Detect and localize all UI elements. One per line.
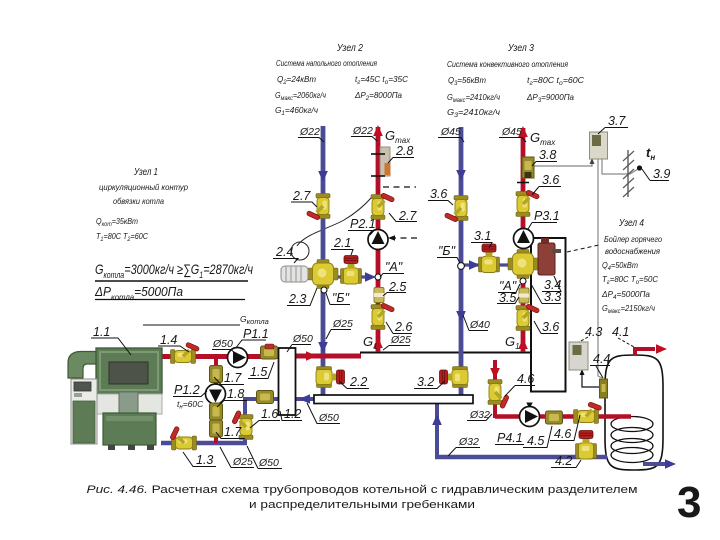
blue cold water line bottom xyxy=(435,455,607,460)
cabinet button xyxy=(74,393,82,397)
red supply pipe node 2 xyxy=(376,127,381,352)
svg-text:Ø22: Ø22 xyxy=(352,125,373,137)
sensor tick node3 pipe xyxy=(517,182,529,184)
label 2.2 xyxy=(339,381,369,389)
pump P2.1 xyxy=(368,230,388,250)
svg-text:Ø50: Ø50 xyxy=(258,457,279,469)
svg-text:3.6: 3.6 xyxy=(430,187,447,201)
svg-text:Узел 4: Узел 4 xyxy=(618,217,644,229)
red pipe separator to supply manifold xyxy=(295,354,361,359)
label 1.1 xyxy=(91,338,131,355)
svg-text:Ø40: Ø40 xyxy=(469,319,490,331)
node B circle node2 xyxy=(321,287,327,293)
label d25 blue node2 xyxy=(326,330,351,340)
blue return pipe node 3 xyxy=(459,127,464,395)
svg-text:3.9: 3.9 xyxy=(653,167,670,181)
label 4.2 xyxy=(551,460,581,468)
valve 2.6 xyxy=(371,299,396,329)
blue arrow into separator xyxy=(299,394,310,404)
sensor tick upper node2 xyxy=(371,153,385,155)
label A node3 xyxy=(498,284,520,293)
svg-text:и распределительными гребенкам: и распределительными гребенками xyxy=(249,499,475,511)
DHW tank body xyxy=(605,355,663,470)
label 1.7 lower xyxy=(216,432,245,439)
label 3.2 xyxy=(414,381,445,389)
label d40 xyxy=(463,315,488,331)
blue pipe separator left to riser xyxy=(243,397,279,401)
svg-text:2.4: 2.4 xyxy=(275,245,293,259)
svg-text:Система напольного отопления: Система напольного отопления xyxy=(276,58,377,68)
label 1.7 upper xyxy=(214,377,244,385)
label 1.4 xyxy=(158,346,189,352)
thermostatic capillary curve node 2 xyxy=(297,197,372,246)
label d32 blue xyxy=(448,448,480,457)
controller 4.3 xyxy=(569,342,588,370)
red DHW feed drop xyxy=(493,360,497,418)
red tank outlet arrow xyxy=(656,344,667,354)
wire heatmeter 3.8 to controller 3.7 xyxy=(534,161,592,166)
svg-text:Ø45: Ø45 xyxy=(440,126,461,138)
valve 3.6 on supply xyxy=(516,186,541,216)
node B circle node3 xyxy=(458,263,465,270)
valve 4.6 on drop xyxy=(488,380,513,410)
heat meter 3.8 foot xyxy=(525,172,532,178)
red top arrow Gmax node 2 xyxy=(373,125,383,136)
svg-text:Узел 1: Узел 1 xyxy=(133,166,158,178)
node A circle node2 xyxy=(375,274,381,280)
label 1.3 xyxy=(183,452,216,467)
red G1 arrow node 3 xyxy=(518,338,528,349)
wall hatching xyxy=(623,151,634,197)
label d32 red xyxy=(467,414,492,421)
boiler 1.1 body frame xyxy=(100,352,158,390)
arrow into pump P4.1 xyxy=(526,403,532,410)
boiler 1.1 flue duct xyxy=(68,352,97,379)
svg-text:2.6: 2.6 xyxy=(394,320,412,334)
svg-text:Ø50: Ø50 xyxy=(212,338,233,350)
sensor loop circle node 2 xyxy=(291,242,309,260)
dP formula underline xyxy=(95,299,245,301)
blue tank outlet arrow xyxy=(665,459,676,469)
label d50 top xyxy=(212,350,236,355)
svg-text:3.7: 3.7 xyxy=(608,114,626,128)
controller 3.7 screen xyxy=(592,135,601,146)
label 2.6 xyxy=(386,322,412,334)
wire arrow at 4.3 bottom xyxy=(580,369,585,375)
svg-text:2.1: 2.1 xyxy=(333,236,351,250)
valve 4.2 xyxy=(576,431,597,460)
label d22 left xyxy=(298,138,324,143)
label 1.8 xyxy=(217,401,247,408)
label 3.5 xyxy=(497,297,519,304)
red tank top outlet pipe xyxy=(635,349,655,356)
valve 1.6 on riser xyxy=(228,409,253,439)
tank coil loop 4 xyxy=(611,448,653,463)
check valve 1.8 xyxy=(210,403,223,420)
controller 4.3 screen xyxy=(573,345,582,355)
label 3.7 xyxy=(598,128,628,135)
svg-text:обвязки котла: обвязки котла xyxy=(113,196,164,206)
blue riser boiler return xyxy=(243,397,247,445)
leader G kotla xyxy=(143,324,240,326)
svg-text:3: 3 xyxy=(677,478,701,527)
label B node2 xyxy=(326,293,350,305)
svg-text:циркуляционный контур: циркуляционный контур xyxy=(99,182,188,192)
actuator 3.4 arm xyxy=(552,249,561,253)
strainer 4.5 xyxy=(546,411,563,424)
label d50 left node2 xyxy=(287,345,311,353)
red arrow after separator xyxy=(306,351,317,361)
svg-text:Бойлер горячего: Бойлер горячего xyxy=(604,234,662,244)
check valve 1.6 xyxy=(257,391,274,404)
red DHW bottom line xyxy=(495,414,631,419)
red boiler supply line xyxy=(161,354,279,359)
label 1.5 xyxy=(248,362,274,379)
label 4.4 xyxy=(590,366,610,379)
dashed leader 4.1 xyxy=(618,338,634,347)
svg-text:Р1.1: Р1.1 xyxy=(243,327,269,341)
label 2.8 xyxy=(388,158,414,164)
wire arrow into 3.7 xyxy=(590,158,595,164)
blue link arrow node 2 xyxy=(365,272,376,282)
wire 4.3 to 4.4 xyxy=(582,374,599,387)
valve 1.7 upper xyxy=(210,366,223,383)
label 1.2 xyxy=(280,411,302,421)
svg-text:"Б": "Б" xyxy=(438,244,456,258)
blue pipe separator to return manifold xyxy=(295,397,314,401)
blue mixing link node 2 xyxy=(330,275,370,278)
blue boiler return bottom line xyxy=(161,441,247,446)
svg-text:1.3: 1.3 xyxy=(196,453,213,467)
label A node2 xyxy=(380,274,404,278)
label P4.1 xyxy=(495,444,524,446)
svg-text:1.1: 1.1 xyxy=(93,325,110,339)
dashed leader uzel4 to frame xyxy=(567,245,599,252)
svg-text:2.8: 2.8 xyxy=(395,144,413,158)
svg-text:Узел 2: Узел 2 xyxy=(336,42,363,54)
pump P4.1 xyxy=(520,407,540,427)
svg-text:3.1: 3.1 xyxy=(474,229,491,243)
label 1.6 xyxy=(250,421,280,429)
svg-text:3.5: 3.5 xyxy=(499,291,516,305)
flow arrow down node3 blue top xyxy=(456,170,466,181)
three way valve 3.3 xyxy=(508,250,538,279)
svg-text:4.5: 4.5 xyxy=(527,434,544,448)
valve 1.7 lower xyxy=(210,420,223,437)
flowmeter 2.5 xyxy=(374,288,384,303)
tank coil loop 1 xyxy=(611,417,653,432)
svg-text:Узел 3: Узел 3 xyxy=(507,42,534,54)
blue mixing link node 3 xyxy=(461,263,512,266)
valve 2.2 xyxy=(316,367,345,388)
label 2.3 xyxy=(287,288,317,306)
heat meter 2.8 xyxy=(380,147,390,176)
node 4 frame box xyxy=(531,238,566,392)
svg-text:1.7: 1.7 xyxy=(224,371,242,385)
actuator 2.4 ridges xyxy=(286,266,301,282)
valve 4.4 xyxy=(600,379,608,398)
label d25 bottom xyxy=(220,447,254,468)
label d50 separator xyxy=(307,403,340,424)
svg-text:Ø25: Ø25 xyxy=(232,456,253,468)
red bypass pipe xyxy=(214,357,218,443)
dashed control line node2 upper xyxy=(383,186,416,188)
svg-text:3.2: 3.2 xyxy=(417,375,434,389)
svg-text:Ø50: Ø50 xyxy=(292,333,313,345)
flow arrow down node2 blue lower xyxy=(318,342,328,353)
svg-text:Р1.2: Р1.2 xyxy=(174,383,200,397)
svg-text:4.1: 4.1 xyxy=(612,325,629,339)
heat meter 3.8 inner xyxy=(525,161,532,170)
boiler 1.1 pedestal column xyxy=(119,392,138,416)
check valve 1.5 xyxy=(261,346,278,359)
tank coil loop 3 xyxy=(611,439,653,454)
svg-text:1.8: 1.8 xyxy=(227,387,244,401)
svg-text:4.6: 4.6 xyxy=(517,372,534,386)
svg-text:2.3: 2.3 xyxy=(288,292,306,306)
actuator 3.4 xyxy=(538,243,555,275)
svg-text:Ø32: Ø32 xyxy=(469,409,490,421)
blue tank outlet line xyxy=(643,462,667,466)
svg-text:"А": "А" xyxy=(385,260,403,274)
label 3.3 xyxy=(531,284,561,304)
valve 1.3 xyxy=(166,425,196,450)
svg-text:2.5: 2.5 xyxy=(388,280,406,294)
thermo actuator 2.4 xyxy=(281,266,308,282)
boiler 1.1 base xyxy=(103,413,156,445)
svg-text:4.4: 4.4 xyxy=(593,352,610,366)
label P3.1 xyxy=(528,223,557,230)
blue arrow up DHW return xyxy=(432,414,442,425)
formula underline xyxy=(95,280,248,282)
pump P1.2 xyxy=(206,384,226,404)
outdoor sensor dot xyxy=(637,165,642,170)
return manifold bar xyxy=(314,395,473,404)
label 3.4 xyxy=(542,276,561,292)
boiler 1.1 main body xyxy=(96,348,162,394)
label 2.5 xyxy=(383,293,406,297)
svg-text:Система конвективного отоплени: Система конвективного отопления xyxy=(447,59,568,69)
boiler 1.1 mid band xyxy=(96,394,162,414)
boiler 1.1 foot 2 xyxy=(128,445,135,450)
valve 3.6 lower xyxy=(516,300,541,330)
blue link arrow node 3 xyxy=(469,260,480,270)
svg-text:1.5: 1.5 xyxy=(250,365,267,379)
svg-text:Ø25: Ø25 xyxy=(332,318,353,330)
cabinet green lower panel xyxy=(73,401,95,443)
svg-text:3.3: 3.3 xyxy=(544,290,561,304)
label 2.4 xyxy=(273,259,298,264)
label 3.6 lower xyxy=(534,321,558,334)
label 2.1 xyxy=(331,250,353,256)
label 3.8 xyxy=(532,162,557,167)
svg-text:1.7: 1.7 xyxy=(224,425,242,439)
label 2.7 left xyxy=(291,202,317,207)
valve 4.6 on line xyxy=(574,398,604,423)
svg-text:"Б": "Б" xyxy=(332,291,350,305)
label 3.9 xyxy=(642,169,669,181)
red top arrow Gmax node 3 xyxy=(518,126,528,137)
svg-text:Ø45: Ø45 xyxy=(501,126,522,138)
outdoor wall line xyxy=(627,150,629,197)
label B node3 xyxy=(437,258,460,264)
valve 2.7 on supply xyxy=(371,189,396,219)
three way valve 2.3 xyxy=(308,260,338,289)
hydraulic separator 1.2 xyxy=(279,348,296,415)
svg-text:3.8: 3.8 xyxy=(539,148,556,162)
label d45 right xyxy=(499,138,526,143)
actuator 3.4 top xyxy=(541,238,549,244)
label 3.6 left xyxy=(428,201,453,206)
dashed control line pump P2.1 xyxy=(390,237,417,239)
svg-text:1.2: 1.2 xyxy=(284,407,301,421)
node A circle node3 xyxy=(520,278,526,284)
svg-text:3.6: 3.6 xyxy=(542,320,559,334)
label d45 left xyxy=(438,138,464,143)
svg-text:Ø25: Ø25 xyxy=(390,334,411,346)
label d25 red node2 xyxy=(383,346,410,351)
valve 3.2 xyxy=(440,367,469,388)
svg-text:1.6: 1.6 xyxy=(261,407,278,421)
label P1.2 xyxy=(173,391,207,397)
svg-text:Р3.1: Р3.1 xyxy=(534,209,560,223)
svg-text:2.2: 2.2 xyxy=(349,375,367,389)
red G1 arrow node 2 xyxy=(373,337,383,348)
valve 4.4 inner xyxy=(602,384,606,392)
label P2.1 xyxy=(348,231,374,236)
tank coil loop 2 xyxy=(611,428,653,443)
dashed leader 4.3 xyxy=(579,337,588,342)
boiler 1.1 window xyxy=(109,362,148,384)
svg-text:1.4: 1.4 xyxy=(160,333,177,347)
svg-text:Ø22: Ø22 xyxy=(299,126,320,138)
wire 3.7 down to 4.4 xyxy=(598,159,602,378)
heat meter 2.8 orange part xyxy=(385,163,391,175)
pump P3.1 xyxy=(514,229,534,249)
label 2.7 right xyxy=(389,213,417,222)
svg-text:4.3: 4.3 xyxy=(585,325,602,339)
boiler control cabinet xyxy=(71,379,97,444)
label 4.5 xyxy=(523,426,552,448)
blue return pipe node 2 xyxy=(321,126,326,395)
svg-text:2.7: 2.7 xyxy=(398,209,417,223)
balancing valve 2.1 xyxy=(341,256,362,285)
top manifold line xyxy=(360,352,531,354)
label 4.6 lower xyxy=(550,415,580,441)
heat meter 3.8 xyxy=(522,157,534,178)
svg-text:Ø50: Ø50 xyxy=(318,412,339,424)
balancing valve 3.1 xyxy=(479,244,500,273)
arrow on P2.1 dashed line xyxy=(388,235,395,241)
svg-text:водоснабжения: водоснабжения xyxy=(605,246,660,256)
label 3.1 xyxy=(471,243,492,249)
flow arrow down node3 blue lower xyxy=(456,311,466,322)
check valve 1.5 red cap xyxy=(265,344,274,349)
svg-text:Р4.1: Р4.1 xyxy=(497,431,523,445)
svg-text:4.2: 4.2 xyxy=(555,454,572,468)
label 3.6 right xyxy=(532,187,561,196)
label d22 right xyxy=(351,137,377,142)
blue DHW return stub from manifold xyxy=(435,403,439,459)
label d50 bottom xyxy=(247,446,282,469)
svg-text:Р2.1: Р2.1 xyxy=(350,217,376,231)
red supply pipe node 3 xyxy=(521,128,526,352)
sensor tick lower node2 xyxy=(371,175,385,177)
svg-text:3.6: 3.6 xyxy=(542,173,559,187)
boiler 1.1 foot 3 xyxy=(147,445,154,450)
flow arrow down node2 blue top xyxy=(318,171,328,182)
svg-text:4.6: 4.6 xyxy=(554,427,571,441)
valve 1.4 xyxy=(171,339,201,364)
boiler 1.1 feet xyxy=(108,445,115,450)
red DHW feed arrow xyxy=(490,368,500,379)
svg-text:Рис. 4.46. Расчетная схема тру: Рис. 4.46. Расчетная схема трубопроводов… xyxy=(87,484,638,496)
flowmeter 3.5 xyxy=(519,288,529,303)
boiler 1.1 base top rim xyxy=(106,416,153,421)
wire 3.7 to outdoor sensor xyxy=(602,159,638,174)
pump P1.1 xyxy=(228,348,248,368)
cabinet display xyxy=(74,382,91,391)
valve 2.7 on return xyxy=(305,194,330,224)
svg-text:2.7: 2.7 xyxy=(292,189,311,203)
valve 3.6 on return xyxy=(443,196,468,226)
controller 3.7 xyxy=(590,132,608,159)
label P1.1 xyxy=(237,340,267,347)
svg-text:Ø32: Ø32 xyxy=(458,436,479,448)
label 4.6 upper xyxy=(505,386,535,397)
